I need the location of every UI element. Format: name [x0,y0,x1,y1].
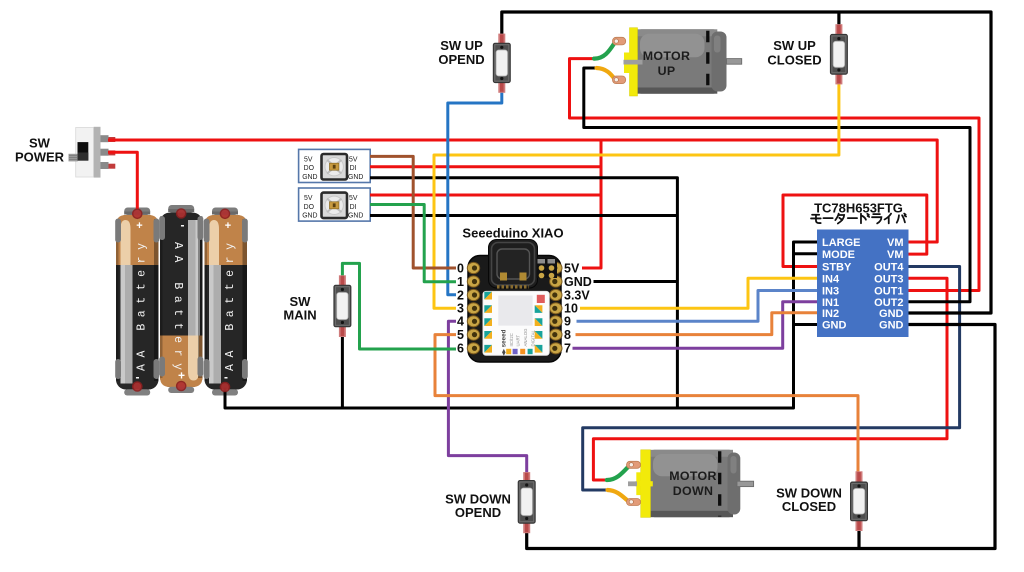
yellow end cap [630,28,638,96]
svg-text:5V: 5V [304,195,313,202]
svg-text:DO: DO [304,204,315,211]
svg-text:DI: DI [350,204,357,211]
svg-text:IIC/I2C: IIC/I2C [509,333,514,346]
svg-text:IN2: IN2 [822,308,839,320]
svg-text:IN3: IN3 [822,286,839,298]
svg-text:CLOSED: CLOSED [767,52,821,67]
wire red: SW POWER top pin to TC78 VM1 [108,140,937,242]
NeoPixel module M1 (5V DO GND / 5V DI GND) [299,149,371,182]
tactile switch SW DOWN OPEND [518,472,535,533]
wire blue: SW UP OPEND to XIAO pin 2 [448,92,502,295]
svg-text:VM: VM [887,237,904,249]
wire green: module M2 DI to XIAO pin 1 [370,205,456,282]
svg-text:0: 0 [457,261,464,275]
dashed marking [718,451,721,516]
tactile switch SW MAIN [334,275,351,337]
motor M-UP body [594,28,742,96]
dashed marking [706,31,709,93]
svg-text:IN1: IN1 [822,297,839,309]
svg-text:CLOSED: CLOSED [782,499,836,514]
wire red: SW POWER middle pin to battery BT1 + [108,152,137,209]
wire orange: XIAO pin 5 to SW DOWN CLOSED [435,335,858,473]
wire yellow: XIAO pin 10 to TC78 IN4 [580,278,817,308]
svg-text:DO: DO [304,165,315,172]
svg-text:MAIN: MAIN [283,308,316,323]
svg-text:SW: SW [29,136,51,151]
wire black: module GND bus down to ground rail [370,178,677,408]
svg-text:9: 9 [564,315,571,329]
wire orange: XIAO pin 8 to TC78 IN2 [576,313,818,335]
pads left [467,262,479,354]
wire red: 5V net vertical to XIAO 5V [582,142,601,269]
tactile switch SW UP CLOSED [830,24,847,84]
svg-text:5V: 5V [349,156,358,163]
svg-text:10: 10 [564,302,578,316]
svg-text:MODE: MODE [822,249,855,261]
tactile switch SW UP OPEND [493,34,510,93]
wire black: MOTOR UP - to TC78 OUT2 [584,68,970,302]
svg-text:GND: GND [879,320,904,332]
wire red: TC78 STBY loop to VM2 [783,195,927,267]
svg-text:LARGE: LARGE [822,237,861,249]
svg-text:5V: 5V [304,156,313,163]
svg-text:2: 2 [457,288,464,302]
svg-text:+: + [225,220,231,232]
svg-text:ANALOG: ANALOG [523,328,528,347]
svg-text:OUT1: OUT1 [874,286,903,298]
svg-text:6: 6 [457,342,464,356]
slide switch SW POWER [69,127,116,178]
tactile switch SW DOWN CLOSED [851,471,868,531]
shaft [737,481,754,486]
svg-text:OPEND: OPEND [438,52,484,67]
USB-C connector [489,240,538,289]
wire cornflower: XIAO pin 9 to TC78 IN3 [577,291,818,322]
svg-text:5V: 5V [349,195,358,202]
svg-text:UART: UART [516,335,521,347]
node: battery terminal dots [133,209,230,392]
component cluster [537,258,558,279]
svg-text:MOTOR: MOTOR [669,469,716,483]
Seeeduino XIAO board U1 [467,240,562,363]
battery BT2 (AA, + down, flipped) [159,205,203,393]
wire navy: MOTOR DOWN - to TC78 OUT4 [583,267,960,491]
svg-text:MOTOR: MOTOR [643,49,690,63]
wire black: bottom GND rail SW DOWN OPEND / SW DOWN CLOSED / TC78 GND [527,325,995,549]
motor M-DOWN body [607,450,754,518]
motor M-UP leads [594,43,615,59]
svg-text:GND: GND [348,213,363,220]
wire green: SW MAIN to XIAO pin 6 [342,263,456,349]
svg-text:GND: GND [879,308,904,320]
svg-text:DI: DI [350,165,357,172]
battery BT1 (AA, + up) [115,208,159,396]
wire red: MOTOR DOWN + to TC78 OUT3 [593,278,947,480]
svg-text:OUT2: OUT2 [874,297,903,309]
svg-text:GND: GND [302,174,317,181]
svg-text:GND: GND [564,275,592,289]
svg-text:5V: 5V [564,261,580,275]
svg-text:GND: GND [822,320,847,332]
svg-text:POWER: POWER [15,150,65,165]
svg-text:VM: VM [887,249,904,261]
wire yellow: SW UP CLOSED to XIAO pin 3 [434,83,839,308]
wire purple: XIAO pin 4 to SW DOWN OPEND [448,321,526,473]
TC78H653FTG motor driver U2 [817,230,909,338]
svg-text:+: + [178,369,185,383]
svg-text:IN4: IN4 [822,273,840,285]
svg-text:+: + [136,220,142,232]
svg-text:DIGITAL: DIGITAL [531,329,536,346]
wire brown: module M1 5V to XIAO pin 0 [370,156,456,268]
svg-text:SW UP: SW UP [440,38,483,53]
wire purple: XIAO pin 7 to TC78 IN1 [573,302,818,349]
NeoPixel module M2 (5V DO GND / 5V DI GND) [299,188,371,221]
yellow end cap [641,450,651,518]
battery BT3 (AA, + up) [204,208,248,396]
label katakana motor driver [811,214,906,224]
svg-text:-: - [181,218,185,232]
svg-text:3: 3 [457,302,464,316]
svg-text:7: 7 [564,342,571,356]
motor M-DOWN leads [607,467,629,481]
wire red: MOTOR UP + to TC78 OUT1 [570,59,980,291]
wire red: module M2 5V to 5V net [370,194,601,197]
svg-text:STBY: STBY [822,262,852,274]
shaft [727,59,742,65]
svg-text:SW UP: SW UP [773,38,816,53]
svg-text:GND: GND [348,174,363,181]
svg-text:1: 1 [457,275,464,289]
wire black: ground rail battery BT3 - to TC78 left GND [225,242,817,408]
wire black: top GND rail SW UP OPEND / SW UP CLOSED / TC78 GND [502,12,991,313]
svg-text:4: 4 [457,315,464,329]
battery pack of three AA cells [115,205,248,396]
svg-text:8: 8 [564,328,571,342]
sticker [483,291,549,355]
wire red: module M1 DI to 5V net [370,165,601,168]
svg-text:TC78H653FTG: TC78H653FTG [814,200,903,215]
svg-text:GND: GND [302,213,317,220]
svg-text:OUT4: OUT4 [874,262,904,274]
svg-text:5: 5 [457,328,464,342]
svg-text:OUT3: OUT3 [874,273,903,285]
svg-text:UP: UP [658,64,676,78]
pads right [550,262,562,354]
svg-text:Seeeduino XIAO: Seeeduino XIAO [462,226,563,241]
svg-text:3.3V: 3.3V [564,288,590,302]
svg-text:DOWN: DOWN [673,484,713,498]
svg-text:OPEND: OPEND [455,505,501,520]
